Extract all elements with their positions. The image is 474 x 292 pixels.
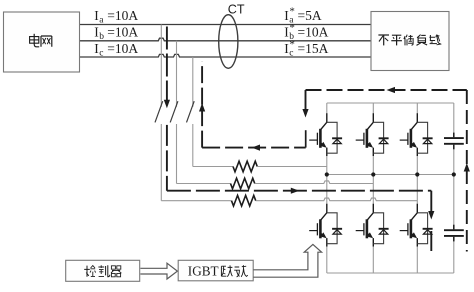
- dashed signal right vertical: [466, 90, 468, 252]
- label: grid text (wang): [41, 36, 52, 47]
- label: controller text (zhi): [98, 265, 109, 277]
- IGBT Q4 (bottom leg1) with diode: [309, 204, 342, 247]
- mid node line: [327, 174, 454, 176]
- svg-text:*: *: [289, 5, 295, 17]
- capacitor C1 plates: [444, 133, 464, 150]
- label: grid text (dian): [30, 34, 40, 47]
- tap from phase C (node c): [192, 57, 194, 167]
- wire phase C (grid to load): [80, 54, 371, 57]
- node dot cap-mid: [452, 172, 456, 176]
- box: power grid (dian-wang): [4, 12, 80, 72]
- wire R1 to leg1: [257, 166, 327, 168]
- dashed signal left vertical: [201, 62, 203, 148]
- label: unbalanced-load text (heng): [404, 35, 413, 46]
- tap from phase A (node a): [160, 25, 162, 201]
- svg-text:CT: CT: [228, 2, 245, 16]
- svg-text:=5A: =5A: [298, 8, 322, 23]
- node dot leg2-mid: [371, 172, 375, 176]
- dashed corner down-arrow into top IGBT row: [302, 90, 308, 118]
- label: driver text (qu): [221, 265, 232, 276]
- dashed signal bottom horizontal: [167, 190, 431, 192]
- svg-text:=10A: =10A: [298, 24, 329, 39]
- label: unbalanced-load text (zai): [429, 35, 441, 45]
- dashed signal from phase A down: [166, 27, 168, 191]
- block arrow controller to driver: [140, 263, 177, 279]
- wire phase A (grid to load): [80, 24, 371, 26]
- svg-text:IGBT: IGBT: [188, 263, 219, 278]
- switch S1: [155, 101, 163, 122]
- resistor R3: [232, 195, 256, 206]
- resistor R2: [231, 178, 255, 189]
- capacitor chain lead: [453, 103, 455, 273]
- svg-text:=10A: =10A: [107, 8, 138, 23]
- arrow down on phase-A dashed: [164, 100, 170, 109]
- capacitor C2 plates: [444, 225, 464, 242]
- dashed corner down into bottom IGBT row: [428, 191, 434, 251]
- label: IGBT text: [188, 263, 219, 278]
- svg-text:=10A: =10A: [107, 24, 138, 39]
- wire R2 to leg2 (hop over leg1): [255, 181, 374, 184]
- label: Ia=10A: [94, 8, 138, 26]
- IGBT Q1 (top leg1) with diode: [309, 113, 342, 156]
- label: unbalanced-load text (ping): [391, 35, 402, 45]
- leg 3 vertical: [416, 103, 418, 273]
- label: Ib*=10A: [284, 22, 328, 42]
- label: Ic=10A: [94, 41, 138, 59]
- IGBT Q6 (bottom leg3) with diode: [400, 204, 433, 247]
- node dot leg1-mid: [325, 172, 329, 176]
- IGBT Q2 (top leg2) with diode: [356, 113, 389, 156]
- label: Ib=10A: [94, 24, 138, 42]
- IGBT Q5 (bottom leg2) with diode: [356, 204, 389, 247]
- wire phase B (grid to load): [80, 38, 371, 41]
- leg 1 vertical: [326, 103, 328, 273]
- label: controller text (kong): [84, 266, 95, 277]
- switch S3: [187, 101, 195, 122]
- dashed signal top horizontal: [306, 89, 467, 91]
- arrow left on top dashed: [387, 87, 396, 93]
- svg-text:c: c: [99, 48, 103, 58]
- resistor R1: [233, 161, 257, 172]
- DC bottom bus: [327, 272, 454, 274]
- wire tap-a to R3: [161, 200, 231, 202]
- DC top bus: [327, 102, 454, 104]
- wire tap-c to R1: [193, 166, 233, 168]
- wire tap-b to R2: [177, 183, 231, 185]
- switch S2: [170, 101, 178, 122]
- box: unbalanced load: [371, 12, 449, 71]
- leg 2 vertical: [372, 103, 374, 273]
- label: controller text (qi): [111, 266, 121, 277]
- solid L from gate region: [305, 130, 307, 147]
- IGBT Q3 (top leg3) with diode: [400, 113, 433, 156]
- svg-text:*: *: [289, 22, 295, 34]
- wire R3 to leg3 (hops over leg1,leg2): [256, 198, 418, 201]
- svg-text:=10A: =10A: [107, 41, 138, 56]
- svg-text:b: b: [99, 32, 104, 42]
- label: unbalanced-load text (fu): [417, 35, 428, 46]
- box: controller: [66, 260, 140, 281]
- tap from phase B (node b): [176, 41, 178, 184]
- arrow up on left dashed: [199, 103, 205, 112]
- arrow right on bottom dashed: [291, 188, 300, 194]
- current transformer CT ellipse: [219, 15, 238, 69]
- box: IGBT driver: [178, 260, 253, 281]
- label: Ic*=15A: [284, 38, 328, 58]
- arrow up on right dashed: [464, 163, 470, 172]
- svg-text:*: *: [289, 38, 295, 50]
- arrow left on mid dashed: [252, 145, 261, 151]
- label: unbalanced-load text (bu): [378, 35, 389, 45]
- svg-text:=15A: =15A: [298, 41, 329, 56]
- label: driver text (dong): [234, 265, 248, 277]
- label: Ia*=5A: [284, 5, 322, 25]
- open arrow driver to gates: [253, 244, 321, 277]
- label: CT: [228, 2, 245, 16]
- node dot leg3-mid: [415, 172, 419, 176]
- dashed signal mid horizontal: [202, 147, 306, 149]
